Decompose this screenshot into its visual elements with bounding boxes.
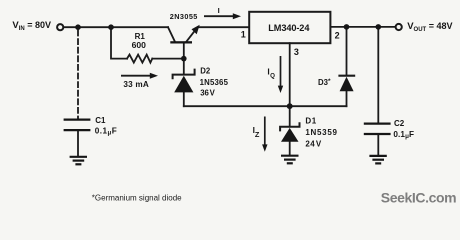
junction dot input/C1: [75, 24, 81, 30]
terminal VIN: [57, 24, 63, 30]
svg-text:1: 1: [241, 29, 246, 39]
wire D3 bottom lead: [346, 91, 348, 106]
wire dashed C1 lead: [77, 31, 79, 120]
svg-text:1N5359: 1N5359: [305, 128, 337, 137]
wire regulator pin 2 to output terminal: [331, 26, 396, 28]
wire R1 top lead: [111, 27, 127, 58]
wire D2 bottom lead: [183, 92, 185, 106]
wire C2 top lead: [377, 27, 379, 123]
junction dot input/R1: [108, 24, 114, 30]
transistor Q1 emitter arrowhead: [192, 25, 200, 35]
wire ground bus: [184, 105, 347, 107]
svg-text:33 mA: 33 mA: [123, 80, 149, 89]
svg-text:LM340-24: LM340-24: [268, 23, 310, 33]
svg-text:2: 2: [335, 31, 340, 41]
wire regulator pin 3: [289, 43, 291, 106]
current arrow IQ: [278, 56, 283, 93]
zener D1: [280, 122, 299, 141]
wire C2 bottom lead: [377, 134, 379, 155]
junction dot output/D3: [344, 24, 350, 30]
svg-text:C1: C1: [95, 116, 106, 125]
transistor Q1 collector lead: [168, 27, 175, 41]
transistor Q1 emitter lead: [187, 27, 198, 41]
ground C2: [369, 156, 386, 164]
junction dot output/C2: [376, 24, 382, 30]
current arrow IZ: [262, 117, 267, 152]
svg-text:36V: 36V: [200, 88, 215, 97]
svg-text:D1: D1: [305, 117, 316, 126]
ground C1: [70, 157, 87, 165]
capacitor C2: [364, 124, 391, 134]
terminal VOUT: [396, 24, 402, 30]
ground D1: [281, 156, 299, 164]
wire D3 top lead: [346, 27, 348, 76]
wire base lead: [183, 43, 185, 58]
wire D1 top lead: [289, 106, 291, 127]
wire D1 bottom lead: [289, 142, 291, 155]
zener D2: [173, 69, 195, 93]
regulator U1 LM340-24 box: [249, 12, 330, 43]
svg-text:2N3055: 2N3055: [170, 12, 198, 21]
wire C1 bottom lead: [77, 130, 79, 156]
current arrow 33 mA: [121, 73, 158, 79]
svg-text:3: 3: [294, 47, 299, 57]
wire input rail: [65, 26, 168, 28]
svg-text:D2: D2: [200, 67, 211, 76]
svg-text:600: 600: [132, 40, 147, 50]
svg-text:1N5365: 1N5365: [200, 78, 229, 87]
wire R1 to base node: [152, 58, 184, 60]
svg-text:I: I: [218, 6, 220, 15]
capacitor C1: [64, 120, 91, 131]
junction dot pin3/bus: [287, 103, 293, 109]
svg-text:0.1μF: 0.1μF: [393, 130, 414, 140]
diode D3: [338, 76, 355, 92]
wire D2 top lead: [183, 59, 185, 75]
svg-text:24V: 24V: [305, 139, 322, 148]
svg-text:*Germanium signal diode: *Germanium signal diode: [92, 193, 182, 202]
wire emitter to regulator pin 1: [199, 26, 249, 28]
resistor R1: [127, 55, 152, 63]
node base of Q1: [181, 56, 187, 62]
transistor Q1 base bar: [170, 41, 192, 43]
current arrow I: [204, 13, 241, 19]
svg-text:SeekIC.com: SeekIC.com: [381, 189, 456, 205]
svg-text:0.1μF: 0.1μF: [95, 127, 117, 137]
svg-text:C2: C2: [394, 119, 405, 128]
